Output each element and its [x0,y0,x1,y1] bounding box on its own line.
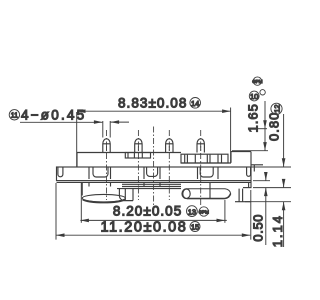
svg-text:13: 13 [188,207,196,216]
svg-text:15: 15 [191,223,199,232]
svg-text:11: 11 [11,113,18,120]
small circle right of 10 [260,90,265,95]
svg-text:0.80: 0.80 [267,112,282,141]
svg-text:4−ø0.45: 4−ø0.45 [21,107,86,122]
right small tab [251,165,263,172]
extension line flange top right [248,166,291,168]
center line pin2 [137,130,139,200]
dimension 8.20 line [80,219,226,223]
pin 4 [197,139,204,153]
slot right big [198,167,219,179]
body top edge [77,152,251,167]
extension line left of 8.20 [80,183,82,223]
balloon 14 [190,98,201,109]
balloon 13 [187,206,198,217]
svg-text:8.20±0.05: 8.20±0.05 [113,203,182,218]
rail strip right [181,154,228,163]
extension line right of 11.20 [250,190,252,240]
right feet [235,181,252,202]
dimension 1.65 line [254,101,267,151]
pin 1 [103,139,110,153]
extension line flange bottom right [253,180,270,182]
svg-text:1.14: 1.14 [270,214,285,247]
lower body lines [89,182,210,198]
extension line right of 8.20 [224,200,226,223]
pin 3 [166,139,173,153]
center line pin3 [168,130,170,200]
balloon 15 [190,222,200,232]
extension line left of 8.83 [76,112,78,167]
svg-text:8.83±0.08: 8.83±0.08 [118,96,187,111]
svg-text:12: 12 [272,104,281,112]
right foot near oval [119,189,133,201]
dimension 8.83 line [77,109,231,113]
svg-text:GPM: GPM [199,209,210,214]
flange outline [57,167,252,182]
extension line right of 8.83 [230,108,232,163]
extension line body right top [232,150,268,152]
pin 2 [135,139,142,153]
svg-text:14: 14 [191,99,199,108]
extension lines pin1 diameter [103,121,110,138]
balloon 10 [249,91,259,101]
dimension 11.20 line [56,233,250,237]
dimension 0.80 line [282,114,286,167]
svg-text:1.65: 1.65 [246,103,261,132]
right pill pad [182,189,231,199]
balloon mark top right [252,77,263,85]
leader line 4-Ø0.45 [20,120,129,124]
slot left big [89,167,111,179]
extension line foot top right [253,187,291,189]
svg-text:10: 10 [250,92,258,101]
balloon 11 [9,110,19,120]
dimension 1.14 line [282,179,286,247]
balloon mark right of 13 [199,207,210,216]
dimension 0.50 line [264,172,268,245]
extension line left of 11.20 [55,183,57,240]
slot center [144,167,160,179]
balloon 12 [271,103,282,114]
svg-text:11.20±0.08: 11.20±0.08 [101,220,188,236]
slot right small [247,167,251,176]
left oval pad [82,182,125,202]
extension line part bottom right [245,201,291,203]
pin 2 base flange [125,153,150,159]
center line pin4 [200,130,202,206]
svg-text:0.50: 0.50 [251,214,266,242]
slot left small [58,167,63,177]
center line main [153,127,155,208]
center line pin1 [106,130,108,200]
svg-text:GPM: GPM [252,79,263,84]
